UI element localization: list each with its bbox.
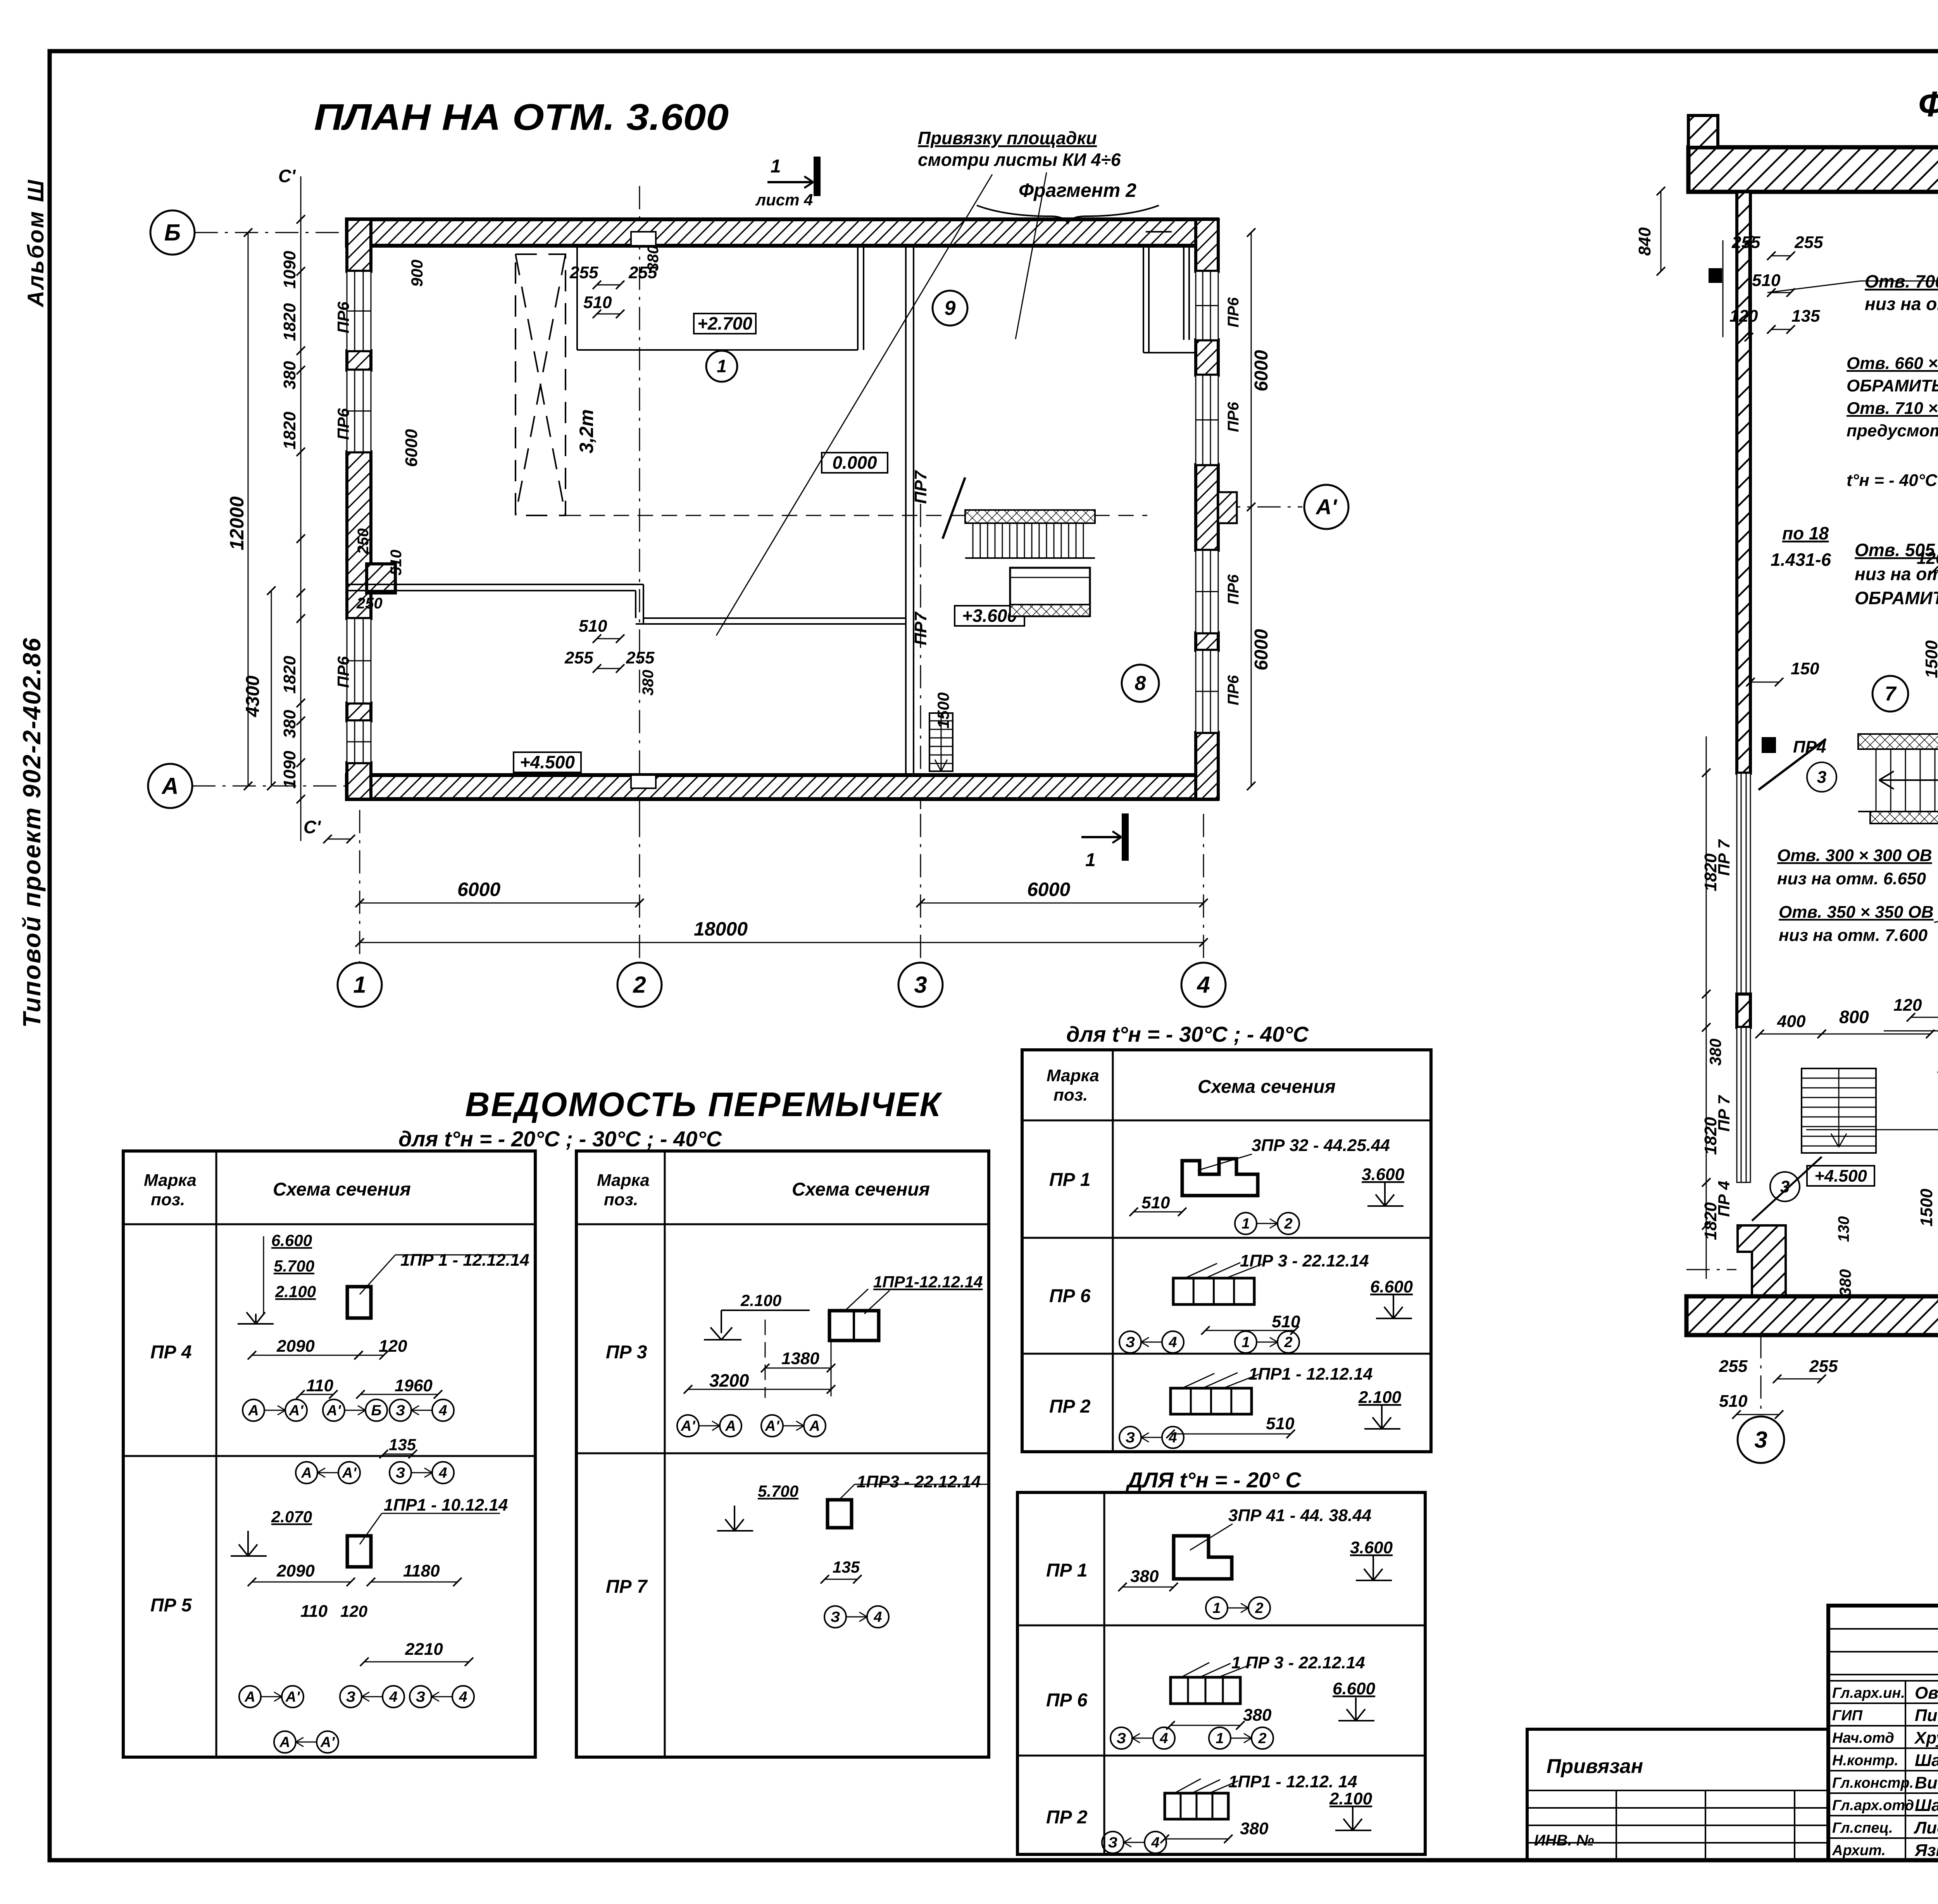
right wall piers <box>1196 219 1218 271</box>
svg-text:ПР 1: ПР 1 <box>1049 1170 1091 1190</box>
bottom wall niche <box>631 775 656 788</box>
left wall windows <box>347 271 371 351</box>
svg-text:2: 2 <box>1284 1334 1292 1351</box>
svg-text:А': А' <box>1315 495 1337 519</box>
node 1 circle <box>706 351 737 382</box>
stairs lower shaft <box>1010 568 1090 616</box>
interior lower wall <box>347 584 643 585</box>
svg-text:4: 4 <box>389 1689 397 1705</box>
svg-text:А: А <box>161 773 178 799</box>
svg-text:З: З <box>346 1689 355 1705</box>
svg-text:1.431-6: 1.431-6 <box>1771 550 1831 570</box>
svg-text:1820: 1820 <box>280 656 299 694</box>
level box +2.700 <box>694 314 756 334</box>
svg-text:А': А' <box>765 1418 780 1434</box>
svg-text:1: 1 <box>353 972 366 998</box>
frag stair landing wall <box>1858 734 1938 749</box>
frag left wall window 2 <box>1737 1027 1750 1182</box>
svg-text:ПР6: ПР6 <box>334 302 352 333</box>
room circle 8 <box>1122 665 1159 702</box>
frag top wall <box>1688 147 1938 192</box>
level box +4.500 <box>514 752 581 772</box>
bottom wall <box>347 775 1217 799</box>
svg-text:А: А <box>809 1418 820 1434</box>
svg-text:2.100: 2.100 <box>1358 1388 1402 1407</box>
svg-text:4: 4 <box>459 1689 467 1705</box>
svg-text:Б: Б <box>164 219 181 245</box>
svg-text:1ПР1-12.12.14: 1ПР1-12.12.14 <box>873 1273 983 1291</box>
svg-text:3200: 3200 <box>709 1370 749 1391</box>
svg-text:А: А <box>248 1403 259 1419</box>
frag left wall window 1 <box>1737 773 1750 994</box>
svg-text:+2.700: +2.700 <box>697 314 752 334</box>
svg-text:3ПР 32 - 44.25.44: 3ПР 32 - 44.25.44 <box>1252 1136 1390 1155</box>
frag circle 3 small door bottom <box>1770 1172 1800 1201</box>
svg-text:З: З <box>831 1609 840 1625</box>
signature table verticals <box>1905 1681 1906 1860</box>
svg-text:250: 250 <box>356 595 383 612</box>
svg-text:А: А <box>279 1734 290 1751</box>
svg-text:4: 4 <box>873 1609 882 1625</box>
svg-text:А': А' <box>285 1689 300 1705</box>
crane dashed box <box>516 254 566 515</box>
svg-text:3.600: 3.600 <box>1350 1538 1393 1557</box>
svg-text:1380: 1380 <box>781 1349 819 1368</box>
svg-text:ПР 2: ПР 2 <box>1049 1396 1091 1417</box>
svg-text:400: 400 <box>1777 1012 1806 1031</box>
svg-text:510: 510 <box>579 617 607 636</box>
svg-text:по 18: по 18 <box>1782 523 1829 543</box>
svg-text:4300: 4300 <box>243 675 263 717</box>
svg-text:ПР7: ПР7 <box>911 611 930 645</box>
svg-text:ПР 4: ПР 4 <box>1715 1181 1733 1217</box>
svg-text:Привязку площадки: Привязку площадки <box>918 128 1097 148</box>
svg-text:1: 1 <box>717 356 727 376</box>
svg-text:255: 255 <box>564 648 593 667</box>
svg-text:А: А <box>301 1465 312 1481</box>
svg-text:120: 120 <box>1729 307 1758 326</box>
svg-text:250: 250 <box>355 528 372 555</box>
svg-text:3: 3 <box>1817 768 1826 787</box>
svg-text:3,2m: 3,2m <box>576 409 597 453</box>
svg-text:120: 120 <box>1893 996 1922 1015</box>
svg-text:Марка: Марка <box>597 1171 650 1190</box>
svg-text:510: 510 <box>583 293 612 312</box>
axis circle 2 <box>617 963 662 1007</box>
outer dim 12000 <box>248 233 249 786</box>
frag left wall hatched <box>1737 192 1750 773</box>
svg-text:Схема сечения: Схема сечения <box>273 1179 411 1200</box>
stair door diagonal <box>943 477 965 539</box>
table 1 frame <box>123 1151 535 1757</box>
svg-text:6.600: 6.600 <box>1370 1277 1413 1296</box>
svg-text:низ на отм 6.450: низ на отм 6.450 <box>1865 294 1938 314</box>
svg-text:Схема сечения: Схема сечения <box>792 1179 930 1200</box>
svg-text:ДЛЯ t°н = - 20° C: ДЛЯ t°н = - 20° C <box>1126 1468 1302 1492</box>
frag stair arrow <box>1879 779 1938 781</box>
svg-text:1: 1 <box>1085 850 1096 870</box>
axis circle A <box>148 764 192 808</box>
level box +3.600 <box>955 606 1024 626</box>
svg-text:380: 380 <box>1243 1706 1272 1725</box>
svg-text:поз.: поз. <box>151 1190 185 1209</box>
svg-text:1090: 1090 <box>280 751 299 789</box>
svg-text:ИНВ. №: ИНВ. № <box>1534 1832 1594 1849</box>
right wall windows <box>1196 271 1218 340</box>
left wall piers <box>347 219 371 271</box>
svg-text:6000: 6000 <box>1027 879 1070 900</box>
svg-text:Альбом Ш: Альбом Ш <box>23 178 48 308</box>
axis circle B <box>150 210 195 255</box>
svg-text:ПР 7: ПР 7 <box>1715 839 1733 876</box>
svg-text:Привязан: Привязан <box>1547 1755 1643 1778</box>
svg-text:А: А <box>244 1689 255 1705</box>
svg-text:255: 255 <box>626 648 655 667</box>
svg-text:низ на отм. 7.600: низ на отм. 7.600 <box>1779 926 1928 945</box>
axis line 2 vertical <box>639 186 640 814</box>
svg-text:ПР6: ПР6 <box>334 408 352 440</box>
svg-text:Гл.арх.отд: Гл.арх.отд <box>1832 1797 1914 1814</box>
svg-text:2090: 2090 <box>276 1561 315 1580</box>
svg-text:510: 510 <box>1266 1414 1295 1433</box>
table 4 frame <box>1017 1492 1425 1854</box>
svg-text:Хрупало: Хрупало <box>1914 1728 1938 1747</box>
svg-text:ПР6: ПР6 <box>334 656 352 688</box>
svg-text:12000: 12000 <box>226 496 248 550</box>
svg-text:+4.500: +4.500 <box>520 752 575 772</box>
svg-text:З: З <box>1117 1730 1126 1747</box>
svg-text:Схема сечения: Схема сечения <box>1198 1077 1336 1097</box>
svg-text:840: 840 <box>1635 227 1654 256</box>
svg-text:Фрагмент 2: Фрагмент 2 <box>1019 179 1136 201</box>
svg-text:ПР6: ПР6 <box>1225 675 1242 705</box>
svg-text:1: 1 <box>1212 1600 1221 1616</box>
interior room wall vertical right <box>857 246 859 350</box>
svg-text:Н.контр.: Н.контр. <box>1832 1752 1898 1769</box>
frag circle 3 door left <box>1807 762 1836 792</box>
svg-text:смотри листы КИ 4÷6: смотри листы КИ 4÷6 <box>918 150 1121 170</box>
svg-text:2210: 2210 <box>405 1640 443 1659</box>
privyazan block <box>1527 1729 1828 1860</box>
section mark 1 bottom <box>1081 836 1121 838</box>
svg-text:ПР 4: ПР 4 <box>150 1342 192 1363</box>
svg-text:1ПР3 - 22.12.14: 1ПР3 - 22.12.14 <box>857 1472 981 1491</box>
level box 0.000 <box>822 453 888 473</box>
svg-text:135: 135 <box>389 1435 416 1454</box>
svg-text:Гл.спец.: Гл.спец. <box>1832 1820 1893 1836</box>
svg-text:6000: 6000 <box>1251 350 1272 391</box>
svg-text:ОБРАМИТЬ РМ 2: ОБРАМИТЬ РМ 2 <box>1855 588 1938 608</box>
svg-text:1ПР1 - 12.12. 14: 1ПР1 - 12.12. 14 <box>1228 1772 1357 1791</box>
svg-text:7: 7 <box>1885 683 1897 705</box>
svg-text:Гл.констр.: Гл.констр. <box>1832 1775 1914 1791</box>
svg-text:3: 3 <box>914 972 927 998</box>
svg-text:ПР 5: ПР 5 <box>150 1595 192 1616</box>
svg-text:3: 3 <box>1754 1427 1767 1453</box>
svg-text:ПР 3: ПР 3 <box>606 1342 647 1363</box>
svg-text:ПР 7: ПР 7 <box>1715 1095 1733 1132</box>
svg-text:З: З <box>1126 1334 1135 1351</box>
svg-text:+4.500: +4.500 <box>1814 1167 1867 1185</box>
svg-text:З: З <box>396 1403 405 1419</box>
svg-text:9: 9 <box>945 297 956 320</box>
svg-text:ПР 2: ПР 2 <box>1046 1807 1088 1828</box>
svg-text:1ПР 1 - 12.12.14: 1ПР 1 - 12.12.14 <box>400 1251 529 1270</box>
inner wall face lines right room <box>1188 246 1190 340</box>
svg-text:255: 255 <box>569 263 598 282</box>
frag door left wall <box>1759 739 1826 790</box>
svg-text:1: 1 <box>1216 1730 1224 1747</box>
svg-text:ПР 1: ПР 1 <box>1046 1560 1088 1581</box>
svg-text:А: А <box>725 1418 736 1434</box>
bottom dim 6000 left <box>360 903 640 904</box>
frag bottom-left L pier <box>1738 1225 1786 1296</box>
svg-text:ГИП: ГИП <box>1832 1708 1863 1724</box>
svg-text:А': А' <box>289 1403 304 1419</box>
svg-text:Гл.арх.ин.: Гл.арх.ин. <box>1832 1685 1905 1701</box>
svg-text:1ПР 3 - 22.12.14: 1ПР 3 - 22.12.14 <box>1240 1251 1369 1270</box>
svg-text:4: 4 <box>1197 972 1210 998</box>
svg-text:А': А' <box>342 1465 357 1481</box>
svg-text:1090: 1090 <box>280 251 299 289</box>
svg-text:ПР6: ПР6 <box>1225 402 1242 432</box>
frag left wall pier small <box>1737 994 1750 1027</box>
svg-text:380: 380 <box>640 670 657 696</box>
svg-text:110: 110 <box>300 1602 328 1621</box>
svg-text:380: 380 <box>1240 1819 1269 1838</box>
svg-text:255: 255 <box>1809 1357 1838 1376</box>
signature rows <box>1828 1680 1938 1682</box>
svg-text:255: 255 <box>1719 1357 1748 1376</box>
svg-text:ПЛАН НА ОТМ. 3.600: ПЛАН НА ОТМ. 3.600 <box>314 96 729 138</box>
svg-text:2: 2 <box>633 972 646 998</box>
svg-text:Нач.отд: Нач.отд <box>1832 1730 1894 1746</box>
svg-text:предусмотреть только для: предусмотреть только для <box>1847 421 1938 440</box>
svg-text:Лисичкин: Лисичкин <box>1914 1818 1938 1837</box>
interior room wall vertical left <box>576 246 578 350</box>
svg-text:6000: 6000 <box>457 879 500 900</box>
svg-text:ОБРАМИТЬ РМ 1: ОБРАМИТЬ РМ 1 <box>1847 376 1938 395</box>
table 2 frame <box>576 1151 989 1757</box>
svg-text:1820: 1820 <box>280 412 299 450</box>
svg-text:8: 8 <box>1135 672 1146 695</box>
room circle 9 <box>933 291 967 326</box>
frag black pier top-left <box>1709 269 1722 283</box>
svg-text:З: З <box>396 1465 405 1481</box>
frag small stair bottom-left <box>1802 1068 1876 1153</box>
svg-text:лист 4: лист 4 <box>755 191 813 209</box>
bottom dim 18000 <box>360 942 1203 943</box>
svg-text:ПР7: ПР7 <box>911 470 930 504</box>
interior partition PR7 vertical <box>905 246 907 775</box>
table 3 frame <box>1022 1050 1431 1452</box>
section mark 1 top <box>767 181 813 183</box>
svg-text:Отв. 710 × 420 ОВ низ на о: Отв. 710 × 420 ОВ низ на отм. 4.060 <box>1847 399 1938 418</box>
svg-text:ВЕДОМОСТЬ ПЕРЕМЫЧЕК: ВЕДОМОСТЬ ПЕРЕМЫЧЕК <box>465 1085 943 1123</box>
svg-text:255: 255 <box>1794 233 1823 252</box>
svg-text:4: 4 <box>1168 1334 1177 1351</box>
svg-text:Б: Б <box>371 1403 382 1419</box>
svg-text:Язычьян: Язычьян <box>1914 1841 1938 1860</box>
svg-text:1500: 1500 <box>1917 1189 1936 1227</box>
svg-text:4: 4 <box>1168 1430 1177 1446</box>
svg-text:6000: 6000 <box>1251 629 1272 670</box>
svg-text:1960: 1960 <box>395 1376 433 1395</box>
frag bottom wall <box>1686 1296 1938 1335</box>
svg-text:+3.600: +3.600 <box>962 606 1017 626</box>
svg-text:110: 110 <box>306 1376 334 1395</box>
left wall protruding pier <box>367 564 395 593</box>
svg-text:900: 900 <box>408 260 426 287</box>
svg-text:1500: 1500 <box>1922 640 1938 678</box>
right wall A-prime jut <box>1218 492 1237 523</box>
svg-text:З: З <box>1126 1430 1135 1446</box>
axis circle A-prime <box>1304 485 1348 529</box>
svg-text:2.100: 2.100 <box>740 1291 781 1310</box>
svg-text:1 ПР 3 - 22.12.14: 1 ПР 3 - 22.12.14 <box>1231 1653 1365 1672</box>
svg-text:2.100: 2.100 <box>275 1282 316 1301</box>
svg-text:1: 1 <box>771 156 781 177</box>
svg-text:2: 2 <box>1284 1216 1292 1232</box>
svg-text:1ПР1 - 12.12.14: 1ПР1 - 12.12.14 <box>1248 1365 1372 1384</box>
svg-text:А': А' <box>320 1734 335 1751</box>
svg-text:ПР6: ПР6 <box>1225 574 1242 605</box>
svg-text:Марка: Марка <box>1047 1066 1099 1085</box>
frag axis line 3 <box>1760 1335 1762 1415</box>
svg-text:Отв. 300 × 300 ОВ: Отв. 300 × 300 ОВ <box>1777 846 1932 865</box>
axis circle 1 <box>338 963 382 1007</box>
svg-text:120: 120 <box>379 1337 407 1356</box>
svg-text:Отв. 660 ×1050 ОВ низ на о: Отв. 660 ×1050 ОВ низ на отм. 3.720 <box>1847 354 1938 373</box>
svg-text:А': А' <box>326 1403 341 1419</box>
right side dim 6000 x2 <box>1251 233 1252 786</box>
svg-text:поз.: поз. <box>1053 1086 1088 1104</box>
svg-text:t°н = - 40°C: t°н = - 40°C <box>1847 471 1938 490</box>
svg-text:4: 4 <box>438 1465 447 1481</box>
svg-text:ПР4: ПР4 <box>1793 737 1826 756</box>
svg-text:380: 380 <box>280 710 299 738</box>
svg-text:510: 510 <box>388 550 405 576</box>
svg-text:поз.: поз. <box>604 1190 638 1209</box>
svg-text:З: З <box>416 1689 425 1705</box>
svg-text:Архит.: Архит. <box>1832 1842 1886 1859</box>
svg-text:Шаломеев: Шаломеев <box>1915 1751 1938 1770</box>
leader lines <box>716 174 992 636</box>
svg-text:380: 380 <box>1706 1039 1724 1066</box>
svg-text:1820: 1820 <box>280 303 299 341</box>
svg-text:4: 4 <box>438 1403 447 1419</box>
svg-text:C': C' <box>303 817 321 837</box>
signature table thin rows <box>1828 1628 1938 1630</box>
svg-text:130: 130 <box>1835 1216 1852 1242</box>
svg-text:Марка: Марка <box>144 1171 197 1190</box>
svg-text:150: 150 <box>1791 659 1819 678</box>
frag top wall stub <box>1688 115 1718 147</box>
svg-text:6.600: 6.600 <box>1333 1679 1376 1698</box>
axis circle 3 <box>898 963 943 1007</box>
svg-text:2: 2 <box>1258 1730 1266 1747</box>
svg-text:А': А' <box>681 1418 696 1434</box>
left dim line <box>300 176 302 841</box>
svg-text:18000: 18000 <box>694 918 748 940</box>
stairs upper flight <box>965 510 1095 523</box>
frag black pier left door <box>1762 737 1776 753</box>
svg-text:6.600: 6.600 <box>271 1231 312 1249</box>
svg-text:120: 120 <box>1917 549 1938 568</box>
interior partition top right <box>1143 246 1144 353</box>
svg-text:для t°н = - 30°C ; - 40°C: для t°н = - 30°C ; - 40°C <box>1066 1022 1309 1046</box>
svg-text:0.000: 0.000 <box>832 453 877 473</box>
svg-text:Отв. 350 × 350 ОВ: Отв. 350 × 350 ОВ <box>1779 903 1934 922</box>
svg-text:4: 4 <box>1159 1730 1168 1747</box>
svg-text:Шаломеев: Шаломеев <box>1915 1796 1938 1815</box>
svg-text:Пивторак: Пивторак <box>1915 1706 1938 1725</box>
svg-text:4: 4 <box>1151 1835 1159 1851</box>
axis line B <box>195 232 349 233</box>
svg-text:135: 135 <box>833 1558 860 1576</box>
svg-text:3ПР 41 - 44. 38.44: 3ПР 41 - 44. 38.44 <box>1228 1506 1371 1525</box>
bottom dim 6000 right <box>921 903 1203 904</box>
svg-text:2090: 2090 <box>276 1337 315 1356</box>
axis circle 4 <box>1181 963 1226 1007</box>
svg-text:800: 800 <box>1839 1007 1869 1027</box>
center dashed line <box>566 515 1147 516</box>
svg-text:380: 380 <box>1836 1269 1854 1296</box>
svg-text:1500: 1500 <box>934 693 952 729</box>
svg-text:1: 1 <box>1241 1334 1250 1351</box>
svg-text:Винклер: Винклер <box>1915 1773 1938 1792</box>
svg-text:C': C' <box>278 166 296 186</box>
svg-text:2: 2 <box>1255 1600 1263 1616</box>
dim 4300 <box>271 591 272 786</box>
svg-text:1ПР1 - 10.12.14: 1ПР1 - 10.12.14 <box>384 1496 508 1515</box>
svg-text:380: 380 <box>645 245 662 271</box>
svg-text:З: З <box>1108 1835 1117 1851</box>
top wall niche <box>631 232 656 246</box>
frag stair lower landing <box>1870 812 1938 824</box>
svg-text:1: 1 <box>1241 1216 1250 1232</box>
svg-text:Ованесян: Ованесян <box>1915 1683 1938 1702</box>
interior room wall horizontal <box>577 349 858 351</box>
svg-text:ПР6: ПР6 <box>1225 297 1242 327</box>
svg-text:ПР 6: ПР 6 <box>1046 1690 1088 1711</box>
small stair bottom <box>929 713 953 771</box>
frag level +4.500 <box>1807 1166 1874 1186</box>
svg-text:6000: 6000 <box>402 429 421 467</box>
axis line A-prime <box>1217 507 1302 508</box>
svg-text:низ на отм. 6.650: низ на отм. 6.650 <box>1777 869 1926 888</box>
svg-text:1180: 1180 <box>403 1561 440 1580</box>
svg-text:120: 120 <box>340 1602 367 1620</box>
axis line 3 vertical <box>920 504 921 814</box>
title block frame <box>1828 1606 1938 1860</box>
frag stair treads <box>1876 749 1877 812</box>
top wall <box>347 219 1217 246</box>
svg-text:380: 380 <box>1130 1567 1159 1586</box>
svg-text:для t°н = - 20°C ; - 30°C: для t°н = - 20°C ; - 30°C ; - 40°C <box>398 1127 722 1151</box>
svg-text:380: 380 <box>280 361 299 389</box>
svg-text:510: 510 <box>1752 271 1781 290</box>
svg-text:5.700: 5.700 <box>274 1257 314 1275</box>
t1 axis pairs row1 <box>243 1399 264 1421</box>
svg-text:ПР 6: ПР 6 <box>1049 1286 1091 1306</box>
svg-text:5.700: 5.700 <box>758 1482 798 1500</box>
svg-text:3.600: 3.600 <box>1362 1165 1405 1184</box>
frag room circle 7 <box>1872 676 1908 712</box>
svg-text:2.100: 2.100 <box>1329 1789 1372 1808</box>
svg-text:510: 510 <box>1719 1392 1748 1411</box>
svg-text:ПР 7: ПР 7 <box>606 1577 648 1597</box>
